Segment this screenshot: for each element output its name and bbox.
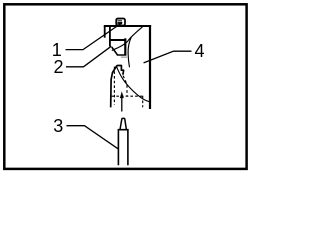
svg-text:2: 2 (53, 57, 63, 77)
seat insert left wall (109, 26, 111, 46)
hidden passage dashed right (142, 96, 144, 107)
leader line 4 (144, 51, 192, 63)
seat funnel curve (112, 27, 143, 51)
border frame (4, 4, 246, 169)
body top edge (104, 25, 151, 27)
bore wall curve (128, 37, 131, 67)
shelf line (121, 56, 127, 58)
leader line 3 (67, 126, 119, 150)
hidden passage dashed bottom (112, 95, 143, 97)
needle tip (part 3) (120, 118, 126, 129)
pocket bottom (117, 54, 127, 56)
svg-text:4: 4 (194, 41, 204, 61)
needle body (118, 130, 128, 166)
nozzle outline (111, 66, 124, 108)
cap slot fill (117, 20, 122, 24)
leader line 1 (66, 23, 123, 50)
leader line 2 (66, 46, 111, 67)
seat insert right bar (124, 38, 126, 55)
flow arrow (120, 91, 124, 98)
body right edge (149, 25, 151, 109)
diffuser curve (116, 66, 150, 102)
hidden passage dashed left (113, 67, 115, 105)
body left wall stub (104, 26, 106, 38)
pocket chamfer (112, 47, 118, 55)
cap slot white line (117, 20, 122, 22)
seat insert flange (109, 39, 126, 41)
cap (part 1) (116, 19, 125, 26)
svg-text:3: 3 (53, 116, 63, 136)
hidden cone dashed (123, 76, 127, 96)
